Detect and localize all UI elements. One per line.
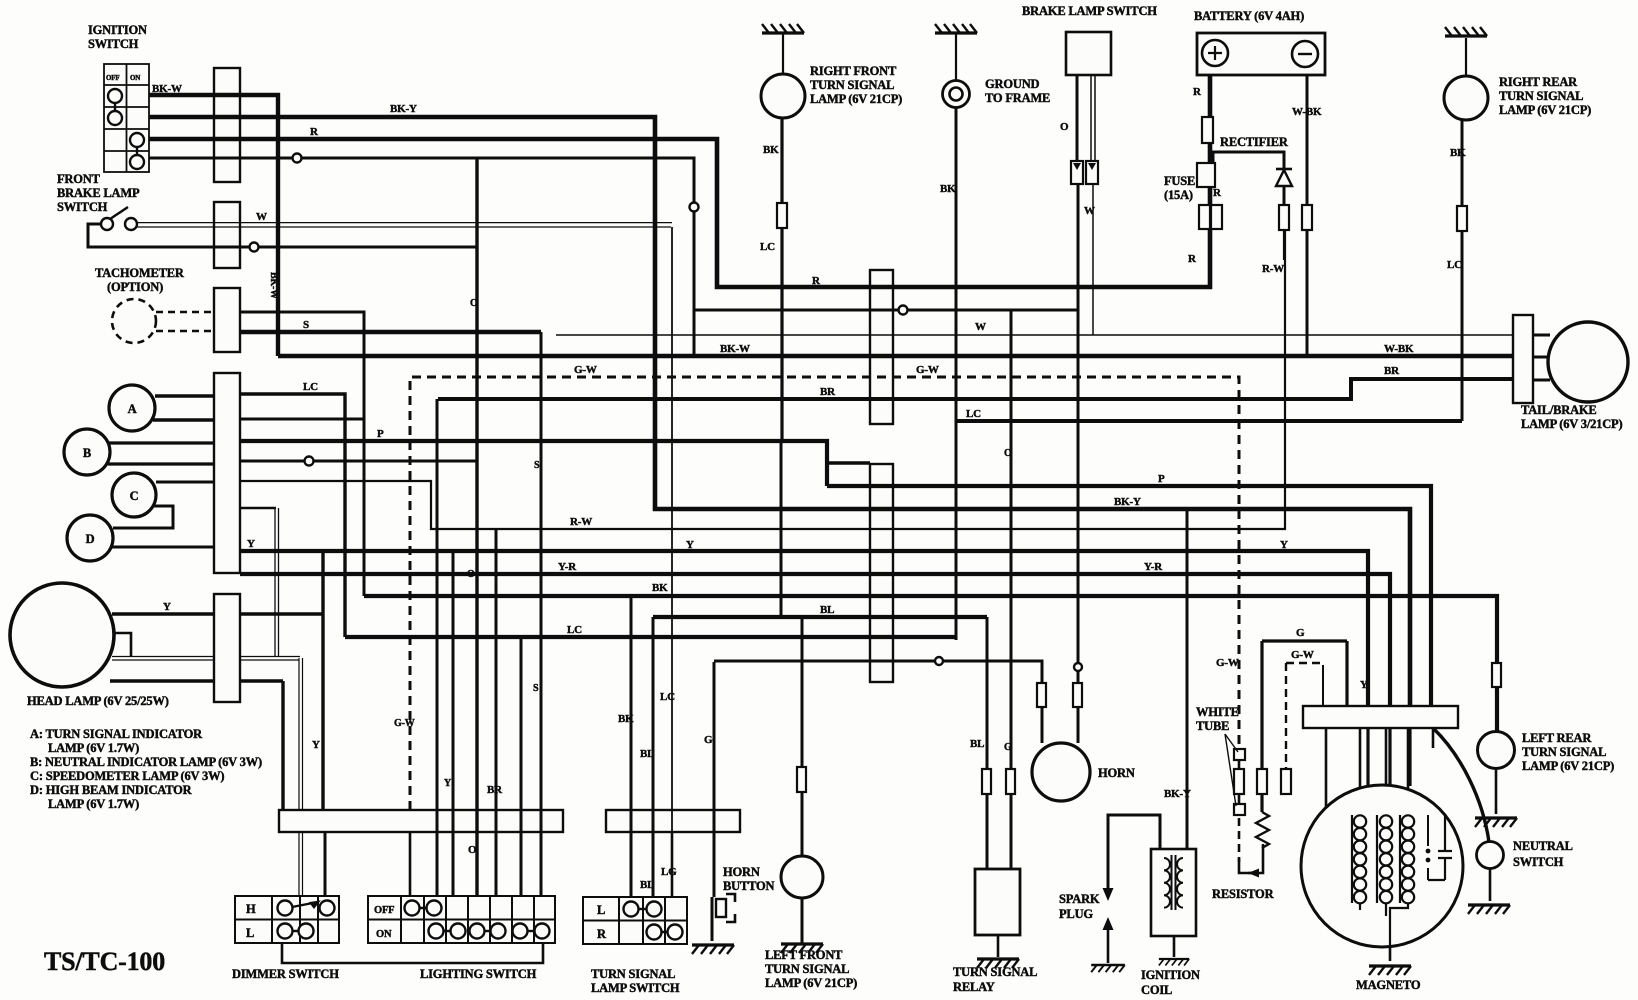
svg-text:BK-W: BK-W xyxy=(152,83,182,95)
connector brake switch a xyxy=(1071,161,1083,184)
tail brake lamp xyxy=(1548,322,1628,402)
svg-text:Y: Y xyxy=(163,601,171,613)
svg-text:A: A xyxy=(128,402,137,416)
indicator lamp C xyxy=(112,473,156,517)
svg-text:BUTTON: BUTTON xyxy=(723,879,775,893)
white tube pointers xyxy=(1225,734,1238,806)
connector pair battery-R b xyxy=(1211,205,1222,229)
svg-text:LAMP (6V 21CP): LAMP (6V 21CP) xyxy=(810,92,902,106)
wire headlamp hi to Y branch xyxy=(240,612,323,615)
svg-text:BK-Y: BK-Y xyxy=(1164,788,1191,800)
wire relay ground lead xyxy=(997,935,1000,957)
svg-text:O: O xyxy=(1060,121,1069,133)
wire W brake pair a xyxy=(134,222,672,224)
svg-text:SWITCH: SWITCH xyxy=(1513,855,1564,869)
svg-text:W-BK: W-BK xyxy=(1384,343,1414,355)
connector brake switch b xyxy=(1086,161,1098,184)
svg-text:D: D xyxy=(86,532,95,546)
svg-text:P: P xyxy=(377,428,384,440)
svg-text:G: G xyxy=(704,734,713,746)
svg-text:LG: LG xyxy=(661,866,677,878)
ground below ignition coil xyxy=(1159,959,1189,965)
wire P trunk left xyxy=(240,441,827,486)
svg-text:R: R xyxy=(1213,187,1222,199)
connector W-BK leg xyxy=(1302,205,1312,230)
left front turn signal lamp xyxy=(781,856,823,898)
svg-text:HORN: HORN xyxy=(1098,766,1135,780)
svg-text:Y: Y xyxy=(1360,679,1368,691)
svg-text:D: HIGH BEAM INDICATOR: D: HIGH BEAM INDICATOR xyxy=(30,783,193,797)
wire P trunk right xyxy=(827,486,1431,707)
svg-text:(15A): (15A) xyxy=(1164,188,1193,202)
arrowhead resistor lead xyxy=(1248,869,1259,878)
node small circle on O row xyxy=(305,457,314,466)
spark plug xyxy=(1103,888,1114,901)
ground below magneto xyxy=(1369,966,1411,975)
svg-text:RIGHT REAR: RIGHT REAR xyxy=(1499,75,1578,89)
wire left front ground lead xyxy=(801,898,804,944)
svg-text:SWITCH: SWITCH xyxy=(57,200,108,214)
svg-text:SPARK: SPARK xyxy=(1059,892,1100,906)
wire horn right lead xyxy=(1077,75,1078,743)
wire rectifier bracket xyxy=(1213,152,1284,168)
svg-text:LEFT REAR: LEFT REAR xyxy=(1522,731,1592,745)
wire R-W trunk xyxy=(240,229,1285,529)
wire brake switch hook xyxy=(88,224,477,247)
wire right front ground lead xyxy=(782,34,784,74)
wire LC trunk xyxy=(345,635,957,639)
indicator lamp D xyxy=(67,515,113,561)
resistor R1 xyxy=(1256,812,1269,848)
svg-text:DIMMER SWITCH: DIMMER SWITCH xyxy=(232,967,339,981)
ground below neutral switch xyxy=(1468,905,1510,914)
wire BK-W ignition to trunk xyxy=(149,95,278,356)
wire spark plug lower xyxy=(1107,930,1110,963)
svg-text:R: R xyxy=(1188,253,1197,265)
wire headlamp hi lead xyxy=(112,612,214,615)
svg-text:G-W: G-W xyxy=(916,364,939,376)
svg-text:G: G xyxy=(1004,742,1012,753)
svg-text:G-W: G-W xyxy=(574,364,597,376)
ignition switch contacts xyxy=(108,89,144,169)
svg-text:BK-Y: BK-Y xyxy=(1114,496,1141,508)
wire O ignition run xyxy=(149,158,694,356)
wire neutral switch ground lead xyxy=(1489,868,1492,901)
indicator lamp B xyxy=(64,429,110,475)
wire magneto ground lead xyxy=(1389,947,1392,961)
ground below left rear lamp xyxy=(1475,818,1517,827)
wire tachometer dashed leads xyxy=(156,312,214,331)
svg-text:RECTIFIER: RECTIFIER xyxy=(1220,135,1289,149)
dimmer switch S4 table xyxy=(235,896,339,943)
ground below spark plug xyxy=(1091,965,1125,972)
wire BK-Y coil drop xyxy=(1186,509,1189,849)
svg-text:LAMP (6V 21CP): LAMP (6V 21CP) xyxy=(765,976,857,990)
ground above right front lamp xyxy=(762,24,804,33)
svg-text:LC: LC xyxy=(966,408,981,420)
wire headlamp thin pair a xyxy=(112,656,300,658)
svg-text:G-W: G-W xyxy=(1291,649,1314,661)
svg-text:BL: BL xyxy=(640,748,654,760)
svg-text:OFF: OFF xyxy=(374,905,394,916)
svg-text:IGNITION: IGNITION xyxy=(88,23,147,37)
wire A row to BK vertical xyxy=(240,418,364,421)
svg-text:SWITCH: SWITCH xyxy=(88,37,139,51)
wire W thin trunk xyxy=(556,334,1513,336)
wire tail lamp leads xyxy=(1533,335,1550,380)
svg-text:LAMP (6V 3/21CP): LAMP (6V 3/21CP) xyxy=(1521,417,1622,431)
magneto coil L3 xyxy=(1399,815,1401,903)
svg-text:BR: BR xyxy=(820,386,836,398)
svg-text:TURN SIGNAL: TURN SIGNAL xyxy=(765,962,849,976)
connector bar J10 turn signal switch xyxy=(606,810,740,832)
svg-text:R: R xyxy=(812,275,821,287)
wire thin lead into bar xyxy=(1322,665,1324,707)
svg-text:Y: Y xyxy=(1280,539,1288,551)
svg-text:LIGHTING SWITCH: LIGHTING SWITCH xyxy=(420,967,537,981)
ground below relay xyxy=(977,959,1019,968)
connector J4 indicator lamps harness xyxy=(214,373,240,573)
turn signal relay K1 xyxy=(975,869,1020,935)
white tube marker upper xyxy=(1234,749,1245,760)
svg-text:R-W: R-W xyxy=(1262,263,1284,275)
wire W brake pair b xyxy=(134,226,671,228)
svg-text:TURN SIGNAL: TURN SIGNAL xyxy=(810,78,894,92)
svg-text:RIGHT FRONT: RIGHT FRONT xyxy=(810,64,897,78)
connector J1 ignition harness xyxy=(214,68,240,182)
svg-text:NEUTRAL: NEUTRAL xyxy=(1513,839,1573,853)
arrows in brake switch connectors xyxy=(1073,163,1096,170)
connector on right rear lamp wire xyxy=(1457,206,1467,231)
svg-text:HORN: HORN xyxy=(723,865,760,879)
svg-text:RELAY: RELAY xyxy=(953,980,995,994)
svg-text:TO FRAME: TO FRAME xyxy=(985,91,1050,105)
svg-text:BK: BK xyxy=(618,713,634,725)
wire O drop to lighting switch xyxy=(475,158,478,896)
svg-text:LAMP (6V 21CP): LAMP (6V 21CP) xyxy=(1499,103,1591,117)
turn signal switch contacts xyxy=(624,902,683,940)
wire O row to drop xyxy=(240,460,477,463)
svg-text:BK: BK xyxy=(763,144,779,156)
connector J2 front brake switch harness xyxy=(214,202,240,268)
svg-text:C: SPEEDOMETER LAMP (6V 3W): C: SPEEDOMETER LAMP (6V 3W) xyxy=(30,769,224,783)
wire G bridge top xyxy=(1262,639,1347,642)
wire headlamp lo lead xyxy=(110,679,283,682)
connector left front lamp xyxy=(797,767,806,792)
svg-text:FRONT: FRONT xyxy=(57,172,101,186)
wire P stub into J7 xyxy=(827,461,870,465)
wire right rear lamp drop xyxy=(1461,120,1464,421)
svg-text:LEFT FRONT: LEFT FRONT xyxy=(765,948,843,962)
wire LC drop lighting switch xyxy=(520,637,523,896)
right rear turn signal lamp xyxy=(1444,76,1488,120)
wire horn button ground lead xyxy=(711,897,714,941)
connector horn right xyxy=(1073,683,1082,707)
wire magneto coil1 link xyxy=(1326,857,1352,860)
wire W-BK main trunk xyxy=(278,354,1513,359)
svg-text:W: W xyxy=(256,211,267,223)
wire G-W resistor junction xyxy=(1239,858,1257,873)
wire LC lamp A lead xyxy=(155,394,345,637)
magneto capacitor C1 xyxy=(1428,815,1452,880)
svg-text:TUBE: TUBE xyxy=(1196,719,1229,733)
svg-text:R-W: R-W xyxy=(570,516,592,528)
lighting switch contacts xyxy=(405,901,550,939)
svg-text:BK: BK xyxy=(940,183,956,195)
wire Y-R trunk xyxy=(240,574,1390,707)
wire Y below bar xyxy=(1366,728,1369,786)
node small circle on brake hook xyxy=(250,243,259,252)
wire TS switch drops below bar xyxy=(631,832,672,897)
svg-text:Y-R: Y-R xyxy=(558,561,577,573)
svg-text:S: S xyxy=(533,683,539,694)
svg-text:W-BK: W-BK xyxy=(1292,106,1322,118)
connector left rear lamp xyxy=(1492,663,1501,687)
node small circle on ignition O wire xyxy=(293,154,302,163)
svg-text:S: S xyxy=(303,319,309,331)
wire BL trunk xyxy=(653,615,987,619)
wire G-W dashed main xyxy=(410,377,1239,810)
horn button S6 xyxy=(726,894,735,922)
wire thin pair vertical b xyxy=(278,508,280,657)
wire C circle leads xyxy=(111,482,214,547)
turn signal lamp switch S8 table xyxy=(583,897,687,944)
wire BK-Y below bar xyxy=(1408,728,1411,786)
wire Y-R below bar xyxy=(1388,728,1391,786)
svg-text:LC: LC xyxy=(760,241,775,253)
svg-text:O: O xyxy=(468,844,477,856)
svg-text:LC: LC xyxy=(1447,259,1462,271)
wire BR trunk xyxy=(438,379,1513,399)
svg-text:TACHOMETER: TACHOMETER xyxy=(95,266,185,280)
node small circle on O vertical xyxy=(690,203,699,212)
wire G bridge left leg xyxy=(1260,641,1263,769)
svg-text:BK-Y: BK-Y xyxy=(390,103,417,115)
ground to frame symbol xyxy=(943,81,970,108)
wire tacho to BK vertical xyxy=(240,312,364,596)
wire coil ground lead xyxy=(1173,936,1176,957)
wire G below tube xyxy=(1260,794,1263,812)
wire B circle leads xyxy=(108,443,214,464)
svg-text:R: R xyxy=(1193,86,1202,98)
wire A lower lead xyxy=(153,418,214,421)
wire G bridge right leg xyxy=(1345,641,1348,707)
ignition switch S1 table xyxy=(104,64,149,172)
connector J7 center harness lower xyxy=(870,464,893,682)
svg-text:A: TURN SIGNAL INDICATOR: A: TURN SIGNAL INDICATOR xyxy=(30,727,203,741)
wire W-BK battery drop xyxy=(1306,75,1309,356)
wire lighting drops below bar xyxy=(410,832,541,896)
indicator lamp A xyxy=(109,385,155,431)
svg-text:LC: LC xyxy=(303,381,318,393)
svg-text:TURN SIGNAL: TURN SIGNAL xyxy=(1522,745,1606,759)
wire right front lamp drop xyxy=(780,118,783,442)
svg-text:Y-R: Y-R xyxy=(1144,561,1163,573)
svg-text:RESISTOR: RESISTOR xyxy=(1212,887,1275,901)
wire ground frame upper xyxy=(955,34,957,81)
svg-text:Y: Y xyxy=(247,538,255,550)
svg-text:TS/TC-100: TS/TC-100 xyxy=(44,947,165,976)
horn xyxy=(1032,743,1090,801)
svg-text:OFF: OFF xyxy=(106,74,119,82)
wire BR drop lighting switch xyxy=(436,399,439,896)
svg-text:TURN SIGNAL: TURN SIGNAL xyxy=(953,965,1037,979)
wire headlamp lo drop xyxy=(281,681,284,810)
connector horn left xyxy=(1037,683,1046,707)
right front turn signal lamp xyxy=(761,74,805,118)
svg-text:LAMP (6V 21CP): LAMP (6V 21CP) xyxy=(1522,759,1614,773)
wire dimmer-lighting loop xyxy=(282,943,543,963)
wire relay lead xyxy=(1010,311,1013,869)
wire BK trunk xyxy=(364,596,1497,731)
wire diode lower lead xyxy=(1283,186,1286,205)
svg-text:B: NEUTRAL INDICATOR LAMP (6V: B: NEUTRAL INDICATOR LAMP (6V 3W) xyxy=(30,755,262,769)
fuse F1 battery lead xyxy=(1202,117,1213,143)
svg-text:TURN SIGNAL: TURN SIGNAL xyxy=(591,967,675,981)
wire G-W tube dashed lower xyxy=(1238,818,1241,862)
svg-text:BK-W: BK-W xyxy=(720,343,750,355)
svg-text:FUSE: FUSE xyxy=(1164,174,1195,188)
wire headlamp thin drop xyxy=(299,658,303,810)
wire left front feed lower xyxy=(801,618,804,856)
node small circle on G trunk xyxy=(935,657,943,665)
node small circle on O trunk xyxy=(899,306,908,315)
connector relay BL xyxy=(982,769,991,794)
wire BL drop relay xyxy=(986,617,989,869)
wire G horn button drop xyxy=(713,662,716,897)
svg-text:P: P xyxy=(1158,473,1165,485)
magneto coil L2 xyxy=(1376,815,1378,903)
connector battery lead xyxy=(1197,163,1215,187)
svg-text:R: R xyxy=(310,126,319,138)
wire Y trunk xyxy=(240,551,1368,707)
wire BK ground frame vertical xyxy=(955,107,958,640)
svg-text:BRAKE LAMP: BRAKE LAMP xyxy=(57,186,140,200)
svg-text:BL: BL xyxy=(970,738,984,750)
connector G-W dashed leg xyxy=(1234,769,1244,794)
connector relay second xyxy=(1006,769,1015,794)
ground below horn button xyxy=(692,945,734,954)
wire S drop lighting switch xyxy=(540,332,543,896)
wire O trunk center xyxy=(694,309,1078,312)
connector J5 head lamp harness xyxy=(214,594,240,702)
node small circle on horn lead xyxy=(1074,663,1082,671)
svg-text:BK: BK xyxy=(652,582,668,594)
wire brake switch W lead xyxy=(1091,75,1095,335)
wire BL drop TS switch xyxy=(652,617,655,897)
ground above right rear lamp xyxy=(1445,27,1487,36)
magneto housing xyxy=(1301,785,1463,947)
white tube marker lower xyxy=(1234,804,1245,815)
connector bar J11 magneto leads xyxy=(1303,706,1458,728)
svg-text:Y: Y xyxy=(312,739,320,751)
svg-text:W: W xyxy=(975,321,986,333)
wire right rear upper xyxy=(1465,38,1467,76)
lighting switch S5 table xyxy=(368,896,555,943)
svg-text:COIL: COIL xyxy=(1141,983,1172,997)
svg-text:IGNITION: IGNITION xyxy=(1141,968,1200,982)
wire R ignition-battery trunk xyxy=(149,75,1210,287)
svg-text:LC: LC xyxy=(567,624,582,636)
svg-text:W: W xyxy=(1084,205,1095,217)
svg-text:L: L xyxy=(246,926,254,940)
svg-text:ON: ON xyxy=(376,929,392,940)
wire Y branch lighting switch xyxy=(452,552,455,896)
svg-text:H: H xyxy=(246,902,256,916)
wire P curve to neutral switch xyxy=(1433,728,1489,842)
wire connector stub to thin pair xyxy=(240,507,276,510)
wire Y below bar dimmer xyxy=(324,832,327,905)
connector bar J9 handlebar switches xyxy=(279,810,563,832)
svg-text:BK-W: BK-W xyxy=(268,272,279,299)
wire thin pair vertical a xyxy=(274,508,276,657)
svg-text:Y: Y xyxy=(686,539,694,551)
wire BK-Y ignition to magneto xyxy=(149,117,1410,707)
wire Y branch headlamp dimmer xyxy=(321,552,324,810)
svg-text:S: S xyxy=(534,460,540,471)
connector J6 center harness upper xyxy=(870,270,893,424)
svg-text:MAGNETO: MAGNETO xyxy=(1356,978,1421,992)
connector rectifier leg xyxy=(1279,205,1289,230)
neutral switch S7 xyxy=(1477,842,1504,869)
svg-text:BR: BR xyxy=(1384,365,1400,377)
svg-text:LC: LC xyxy=(660,691,675,703)
wire magneto leads below bar xyxy=(1326,728,1433,858)
svg-text:G: G xyxy=(1296,627,1305,639)
svg-text:TURN SIGNAL: TURN SIGNAL xyxy=(1499,89,1583,103)
wire resistor lower lead xyxy=(1248,844,1263,873)
svg-text:ON: ON xyxy=(130,74,140,82)
svg-text:O: O xyxy=(467,569,475,580)
wire R-W lighting drop xyxy=(495,530,498,896)
svg-text:G-W: G-W xyxy=(1216,657,1239,669)
svg-text:L: L xyxy=(597,903,605,917)
ground above ground-to-frame xyxy=(935,24,977,33)
battery BT1 xyxy=(1197,33,1325,75)
svg-text:C: C xyxy=(130,489,139,503)
svg-text:R: R xyxy=(597,927,607,941)
left rear turn signal lamp xyxy=(1478,732,1515,769)
front brake lamp switch S2 xyxy=(101,207,137,230)
svg-text:O: O xyxy=(470,298,478,309)
wire dimmer thin below bar xyxy=(299,832,303,896)
tachometer (option) xyxy=(112,299,156,343)
svg-text:BK: BK xyxy=(1450,147,1466,159)
wire G-W second dashed xyxy=(1286,663,1320,769)
wire G-W tube section xyxy=(1238,758,1241,815)
ignition coil T1 xyxy=(1151,849,1196,936)
wire S trunk xyxy=(240,330,541,335)
wire headlamp bracket xyxy=(114,633,131,657)
connector J8 tail lamp xyxy=(1513,315,1533,403)
wire left front feed upper xyxy=(780,442,783,617)
svg-text:WHITE: WHITE xyxy=(1196,705,1239,719)
svg-text:LAMP (6V 1.7W): LAMP (6V 1.7W) xyxy=(48,741,139,755)
connector J3 tachometer harness xyxy=(214,288,240,352)
head lamp xyxy=(10,583,114,687)
svg-text:HEAD LAMP (6V 25/25W): HEAD LAMP (6V 25/25W) xyxy=(27,694,169,708)
wire W drop turn signal switch xyxy=(671,227,673,897)
svg-text:GROUND: GROUND xyxy=(985,77,1040,91)
magneto coil L1 xyxy=(1351,815,1353,903)
svg-text:BATTERY (6V 4AH): BATTERY (6V 4AH) xyxy=(1194,9,1304,23)
svg-text:LAMP (6V 1.7W): LAMP (6V 1.7W) xyxy=(48,797,139,811)
wire LC right rear run xyxy=(957,419,1462,423)
svg-text:BL: BL xyxy=(640,879,654,891)
dimmer switch contacts xyxy=(278,901,335,939)
svg-text:Y: Y xyxy=(444,778,452,789)
svg-text:BRAKE LAMP SWITCH: BRAKE LAMP SWITCH xyxy=(1022,4,1157,18)
